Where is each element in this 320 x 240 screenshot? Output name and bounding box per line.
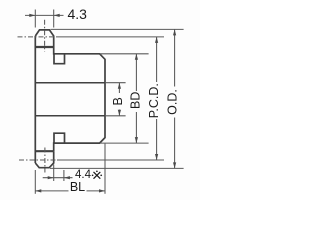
plate left edge [34, 36, 36, 163]
arrowhead 4.3 right [54, 14, 60, 17]
hub outline [54, 47, 105, 151]
sprocket body outline (plate, teeth, hub) [35, 30, 105, 168]
extension line 4.4 right [63, 170, 65, 181]
top tooth centerline [44, 20, 46, 52]
arrowhead BL left [35, 189, 41, 192]
P.C.D. bottom pitch line (dash-dot through tooth) [19, 159, 57, 161]
reference mark (kome) after 4.4 [94, 172, 101, 179]
bottom tooth [35, 151, 53, 168]
arrowhead B down [118, 110, 121, 116]
bore bottom line [35, 115, 105, 117]
arrowhead BL right [99, 189, 105, 192]
extension line BL left [34, 170, 36, 194]
P.C.D. bottom extension line [57, 159, 164, 161]
svg-text:BL: BL [70, 180, 85, 194]
arrowhead BD down [135, 137, 138, 143]
top root line [35, 46, 53, 48]
bore bottom extension line [105, 115, 126, 117]
O.D. bottom extension line [50, 167, 184, 169]
arrowhead P.C.D. down [155, 154, 158, 160]
svg-text:4.4: 4.4 [75, 169, 92, 181]
arrowhead 4.3 left [29, 14, 35, 17]
P.C.D. top pitch line (dash-dot through tooth) [18, 36, 57, 38]
svg-text:O.D.: O.D. [166, 89, 180, 115]
O.D. dimension line [174, 29, 176, 168]
extension line 4.3 right [53, 10, 55, 28]
arrowhead O.D. down [173, 162, 176, 168]
dimension line BL [35, 190, 105, 192]
top tooth [35, 30, 53, 47]
arrowhead O.D. up [173, 29, 176, 35]
svg-text:4.3: 4.3 [68, 6, 88, 22]
dimension line 4.4 [43, 177, 73, 179]
BD dimension line [135, 54, 137, 143]
svg-text:P.C.D.: P.C.D. [147, 83, 161, 118]
B dimension line lower [118, 110, 120, 116]
P.C.D. dimension line [156, 37, 158, 160]
bottom root line [35, 150, 53, 152]
P.C.D. top extension line [56, 36, 164, 38]
bottom tooth centerline [44, 148, 46, 173]
dimension line 4.3 [25, 14, 64, 16]
arrowhead B up [118, 83, 121, 89]
extension line 4.3 left [34, 10, 36, 28]
arrowhead 4.4 left [48, 176, 54, 179]
arrowhead P.C.D. up [155, 37, 158, 43]
bore top extension line [105, 82, 126, 84]
bore top line [35, 82, 105, 84]
O.D. top extension line [51, 28, 184, 30]
set screw hole bottom [54, 133, 65, 143]
arrowhead 4.4 right [64, 176, 70, 179]
svg-text:BD: BD [129, 92, 143, 109]
B dimension line upper [118, 83, 120, 93]
arrowhead BD up [135, 54, 138, 60]
set screw hole top [54, 54, 65, 64]
BD top extension line [100, 53, 149, 55]
BD bottom extension line [100, 142, 149, 144]
extension line BL right [104, 144, 106, 194]
svg-text:B: B [111, 97, 125, 105]
extension line 4.4 left [53, 165, 55, 182]
